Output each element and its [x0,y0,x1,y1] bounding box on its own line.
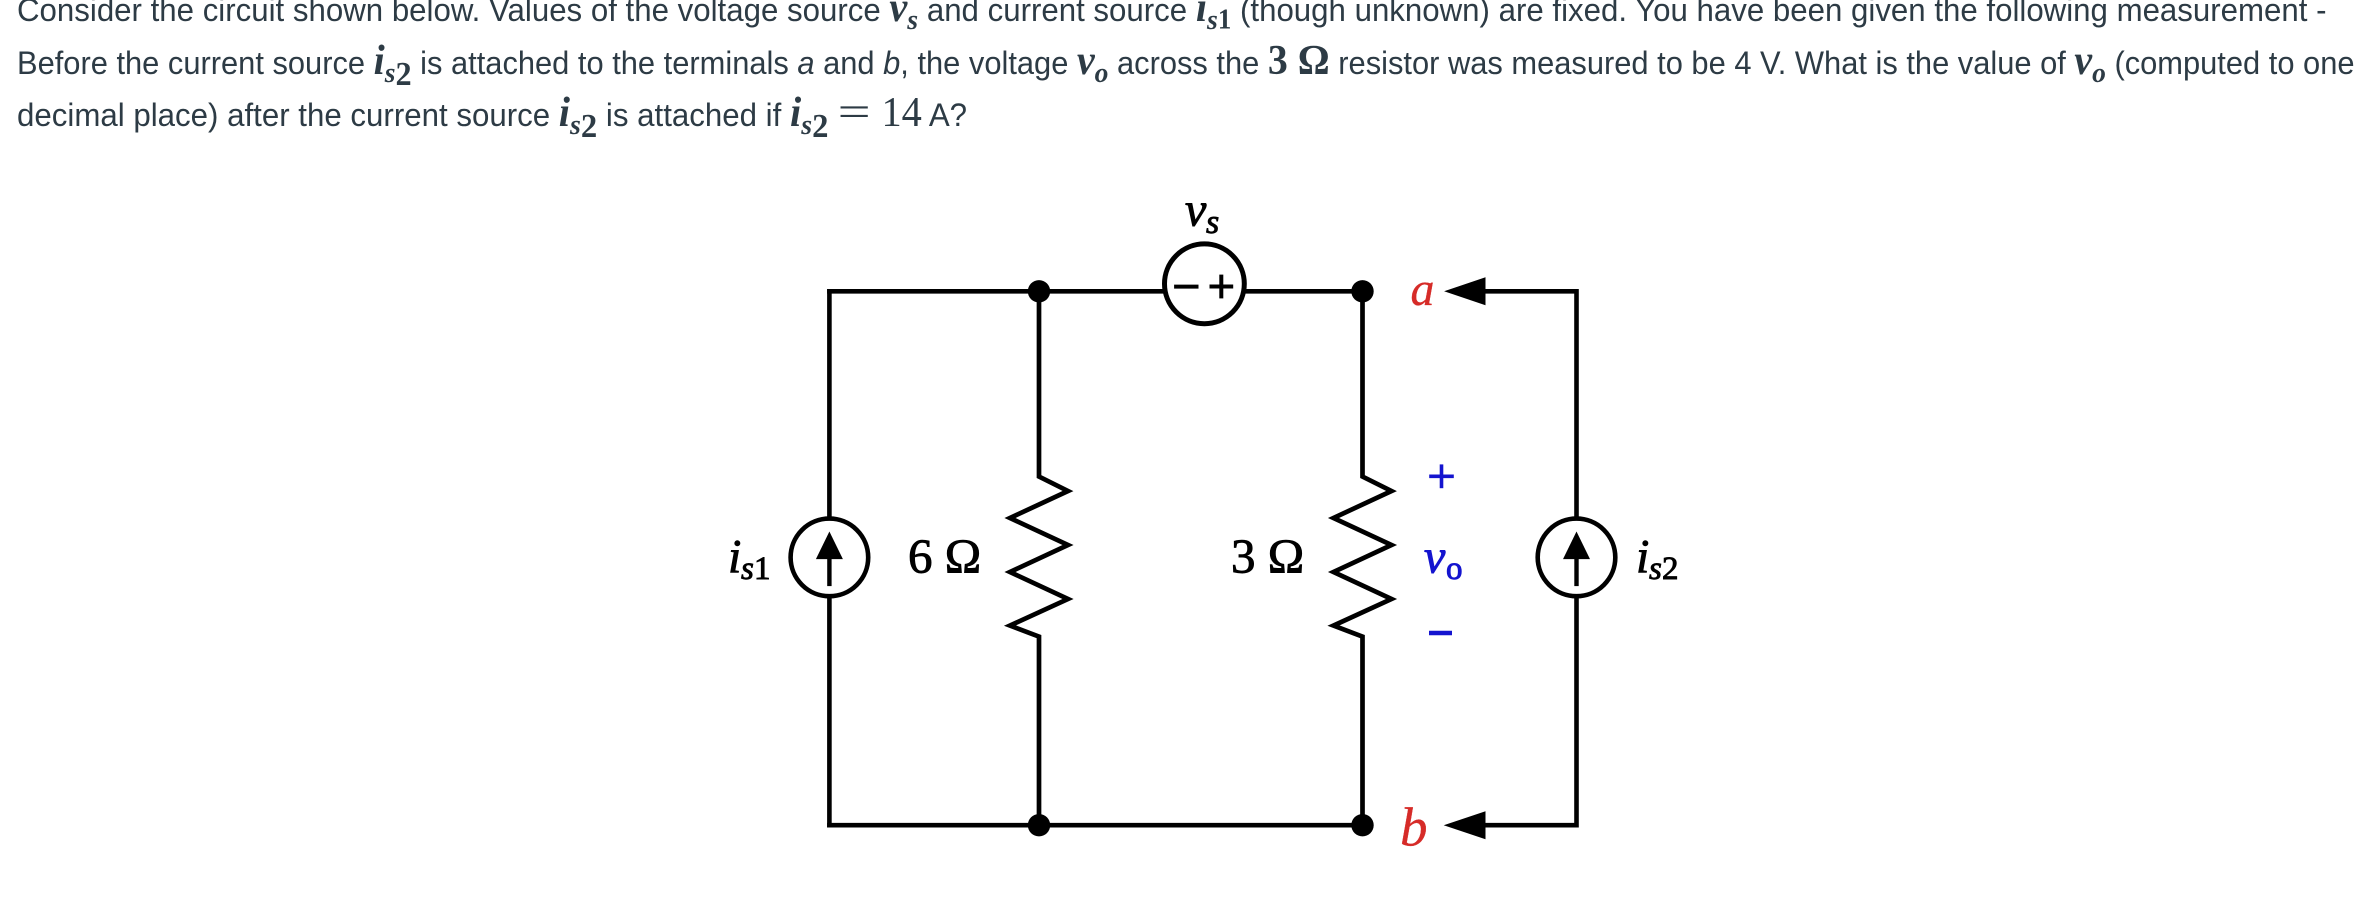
current source I is2 circle [1538,519,1616,597]
voltage source plus sign [1210,275,1234,299]
label terminal a [1411,263,1435,316]
svg-text:s: s [1206,204,1219,241]
resistor R 3ohm zigzag [1334,291,1392,825]
svg-text:s: s [741,551,754,587]
label minus vo [1429,631,1452,636]
label terminal b [1400,797,1428,858]
junction dot bottom left node [1028,814,1050,836]
svg-text:3 Ω: 3 Ω [1231,528,1304,583]
junction dot top left node [1028,280,1050,302]
svg-text:b: b [1400,797,1428,858]
wire right branch with arrows to a and b [1444,277,1577,839]
svg-text:v: v [1424,531,1446,584]
svg-text:6 Ω: 6 Ω [908,528,981,583]
label is2 [1636,530,1679,587]
question text line 2 [17,37,2355,89]
svg-text:v: v [1185,183,1207,236]
svg-text:s: s [1649,551,1662,587]
voltage source minus sign [1174,285,1198,289]
wire left branch [827,289,832,828]
voltage source U vs circle [1165,244,1245,324]
svg-text:1: 1 [754,551,771,587]
junction dot node a [1351,280,1373,302]
svg-text:o: o [1446,551,1463,587]
question text line 3 [17,89,2366,141]
label 6 ohm [908,528,981,583]
wire bottom rail [827,823,1362,828]
svg-text:a: a [1411,263,1435,316]
current source is2 arrow [1563,532,1590,587]
label vo [1424,531,1463,587]
wire top rail [827,289,1362,294]
current source I is1 circle [791,519,869,597]
label 3 ohm [1231,528,1304,583]
svg-text:2: 2 [1662,551,1679,587]
label vs [1185,183,1219,241]
question text line 1 [17,0,2366,141]
resistor R 6ohm zigzag [1010,291,1068,825]
svg-text:i: i [728,530,741,583]
current source is1 arrow [816,532,843,587]
label is1 [728,530,771,587]
svg-text:i: i [1636,530,1649,583]
label plus vo [1429,464,1454,488]
junction dot node b [1351,814,1373,836]
